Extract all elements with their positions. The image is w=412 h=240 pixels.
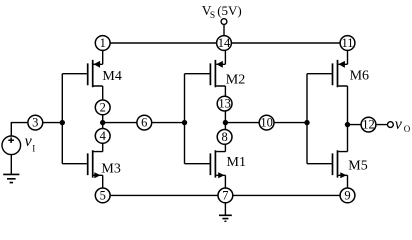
svg-text:M5: M5	[348, 159, 367, 174]
svg-text:v: v	[395, 116, 403, 133]
svg-text:12: 12	[362, 118, 375, 132]
svg-text:10: 10	[260, 116, 273, 130]
svg-text:M1: M1	[227, 155, 246, 170]
svg-text:3: 3	[32, 116, 38, 130]
svg-text:S: S	[210, 11, 215, 21]
svg-text:6: 6	[141, 116, 147, 130]
svg-text:5: 5	[100, 189, 106, 203]
svg-text:I: I	[32, 144, 35, 154]
svg-text:(5V): (5V)	[217, 3, 242, 18]
svg-text:M4: M4	[102, 69, 121, 84]
svg-text:14: 14	[218, 36, 231, 50]
svg-text:M3: M3	[101, 162, 120, 177]
svg-text:11: 11	[341, 36, 353, 50]
svg-text:M2: M2	[226, 73, 245, 88]
svg-text:7: 7	[222, 189, 228, 203]
svg-text:O: O	[404, 124, 411, 134]
svg-text:2: 2	[100, 101, 106, 115]
svg-text:4: 4	[100, 129, 107, 143]
svg-text:1: 1	[100, 36, 106, 50]
svg-text:M6: M6	[350, 69, 369, 84]
svg-text:9: 9	[344, 189, 350, 203]
svg-text:8: 8	[221, 130, 227, 144]
svg-text:13: 13	[218, 97, 231, 111]
